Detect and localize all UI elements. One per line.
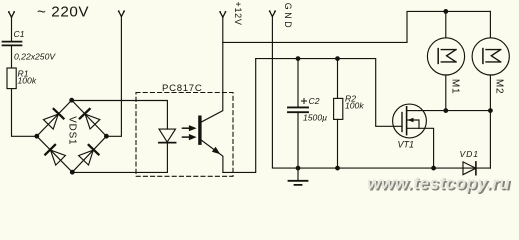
node drain M1: [443, 108, 448, 113]
wire emitter to gate rail: [223, 59, 256, 173]
capacitor C2: [288, 99, 308, 113]
svg-text:PC817C: PC817C: [162, 83, 202, 94]
wire gate rail: [256, 59, 402, 127]
diode VDS1 top-left: [43, 109, 63, 129]
diode VD1: [463, 162, 476, 175]
wire source to bottom rail: [419, 128, 434, 168]
watermark www.testcopy.ru: [367, 173, 512, 195]
diode VDS1 top-right: [80, 109, 100, 129]
node R2 bottom: [335, 166, 340, 171]
wire M2 bottom to VD1: [489, 75, 491, 168]
wire C2 bottom: [297, 112, 299, 168]
node C2 bottom / ground junction: [296, 166, 301, 171]
capacitor C1: [3, 42, 22, 46]
node bridge bottom: [70, 170, 75, 175]
phototransistor base bar: [198, 117, 201, 143]
svg-text:C1: C1: [14, 29, 25, 39]
svg-text:GND: GND: [283, 3, 293, 30]
node R2 top: [335, 56, 340, 61]
node rail M1 top: [443, 9, 448, 14]
ground: [289, 168, 308, 185]
terminal AC input 1: [8, 11, 15, 17]
terminal +12V: [219, 11, 226, 17]
wire bridge top to LED: [72, 101, 168, 130]
svg-text:100k: 100k: [18, 76, 37, 86]
svg-text:VDS1: VDS1: [66, 116, 77, 145]
svg-text:100k: 100k: [345, 100, 364, 110]
svg-text:M2: M2: [493, 79, 504, 95]
wire M1 bottom: [445, 75, 447, 111]
wire R2 top: [337, 59, 339, 99]
svg-text:M1: M1: [449, 79, 460, 95]
resistor R2: [334, 98, 343, 119]
svg-text:C2: C2: [309, 96, 320, 106]
svg-text:+12V: +12V: [233, 2, 243, 26]
node bridge left: [34, 134, 39, 139]
terminal GND: [269, 10, 276, 16]
wire M2 top: [489, 11, 491, 37]
wire AC2 to bridge right node: [106, 17, 121, 137]
svg-text:~ 220V: ~ 220V: [37, 3, 89, 20]
node source ground: [431, 166, 436, 171]
light arrow 1: [183, 125, 197, 131]
motor M2: [472, 38, 509, 75]
motor M1: [427, 38, 464, 75]
node bridge right: [104, 134, 109, 139]
svg-text:1500µ: 1500µ: [303, 113, 327, 123]
node drain M2: [488, 108, 493, 113]
svg-text:0,22x250V: 0,22x250V: [14, 51, 56, 61]
svg-text:www.testcopy.ru: www.testcopy.ru: [367, 173, 510, 193]
node bridge top: [69, 98, 74, 103]
wire R1 to bridge left node: [12, 89, 37, 137]
wire GND down to bottom rail: [272, 17, 490, 169]
svg-text:VD1: VD1: [460, 149, 479, 159]
wire C2 top: [297, 59, 299, 107]
wire bridge bottom to LED cathode: [72, 143, 167, 173]
wire C1 to R1: [11, 46, 13, 68]
transistor VT1 mosfet: [393, 104, 427, 138]
svg-text:VT1: VT1: [398, 140, 415, 150]
diode VDS1 bottom-left: [45, 145, 65, 165]
light arrow 2: [183, 134, 197, 140]
wire R2 bottom: [337, 119, 339, 168]
wire drain rail to motors: [419, 110, 490, 112]
wire M1 top: [445, 11, 447, 37]
node C2 top: [296, 56, 301, 61]
optocoupler U1 dashed box: [136, 93, 233, 177]
phototransistor collector: [201, 17, 223, 122]
terminal AC input 2: [118, 10, 125, 16]
bridge rectifier VDS1 frame: [37, 100, 107, 172]
wire AC1 to C1: [11, 17, 13, 41]
LED of optocoupler: [159, 129, 176, 143]
diode VDS1 bottom-right: [79, 145, 99, 165]
phototransistor emitter: [201, 140, 223, 173]
resistor R1: [7, 68, 16, 89]
wire +12V rail: [223, 11, 491, 42]
